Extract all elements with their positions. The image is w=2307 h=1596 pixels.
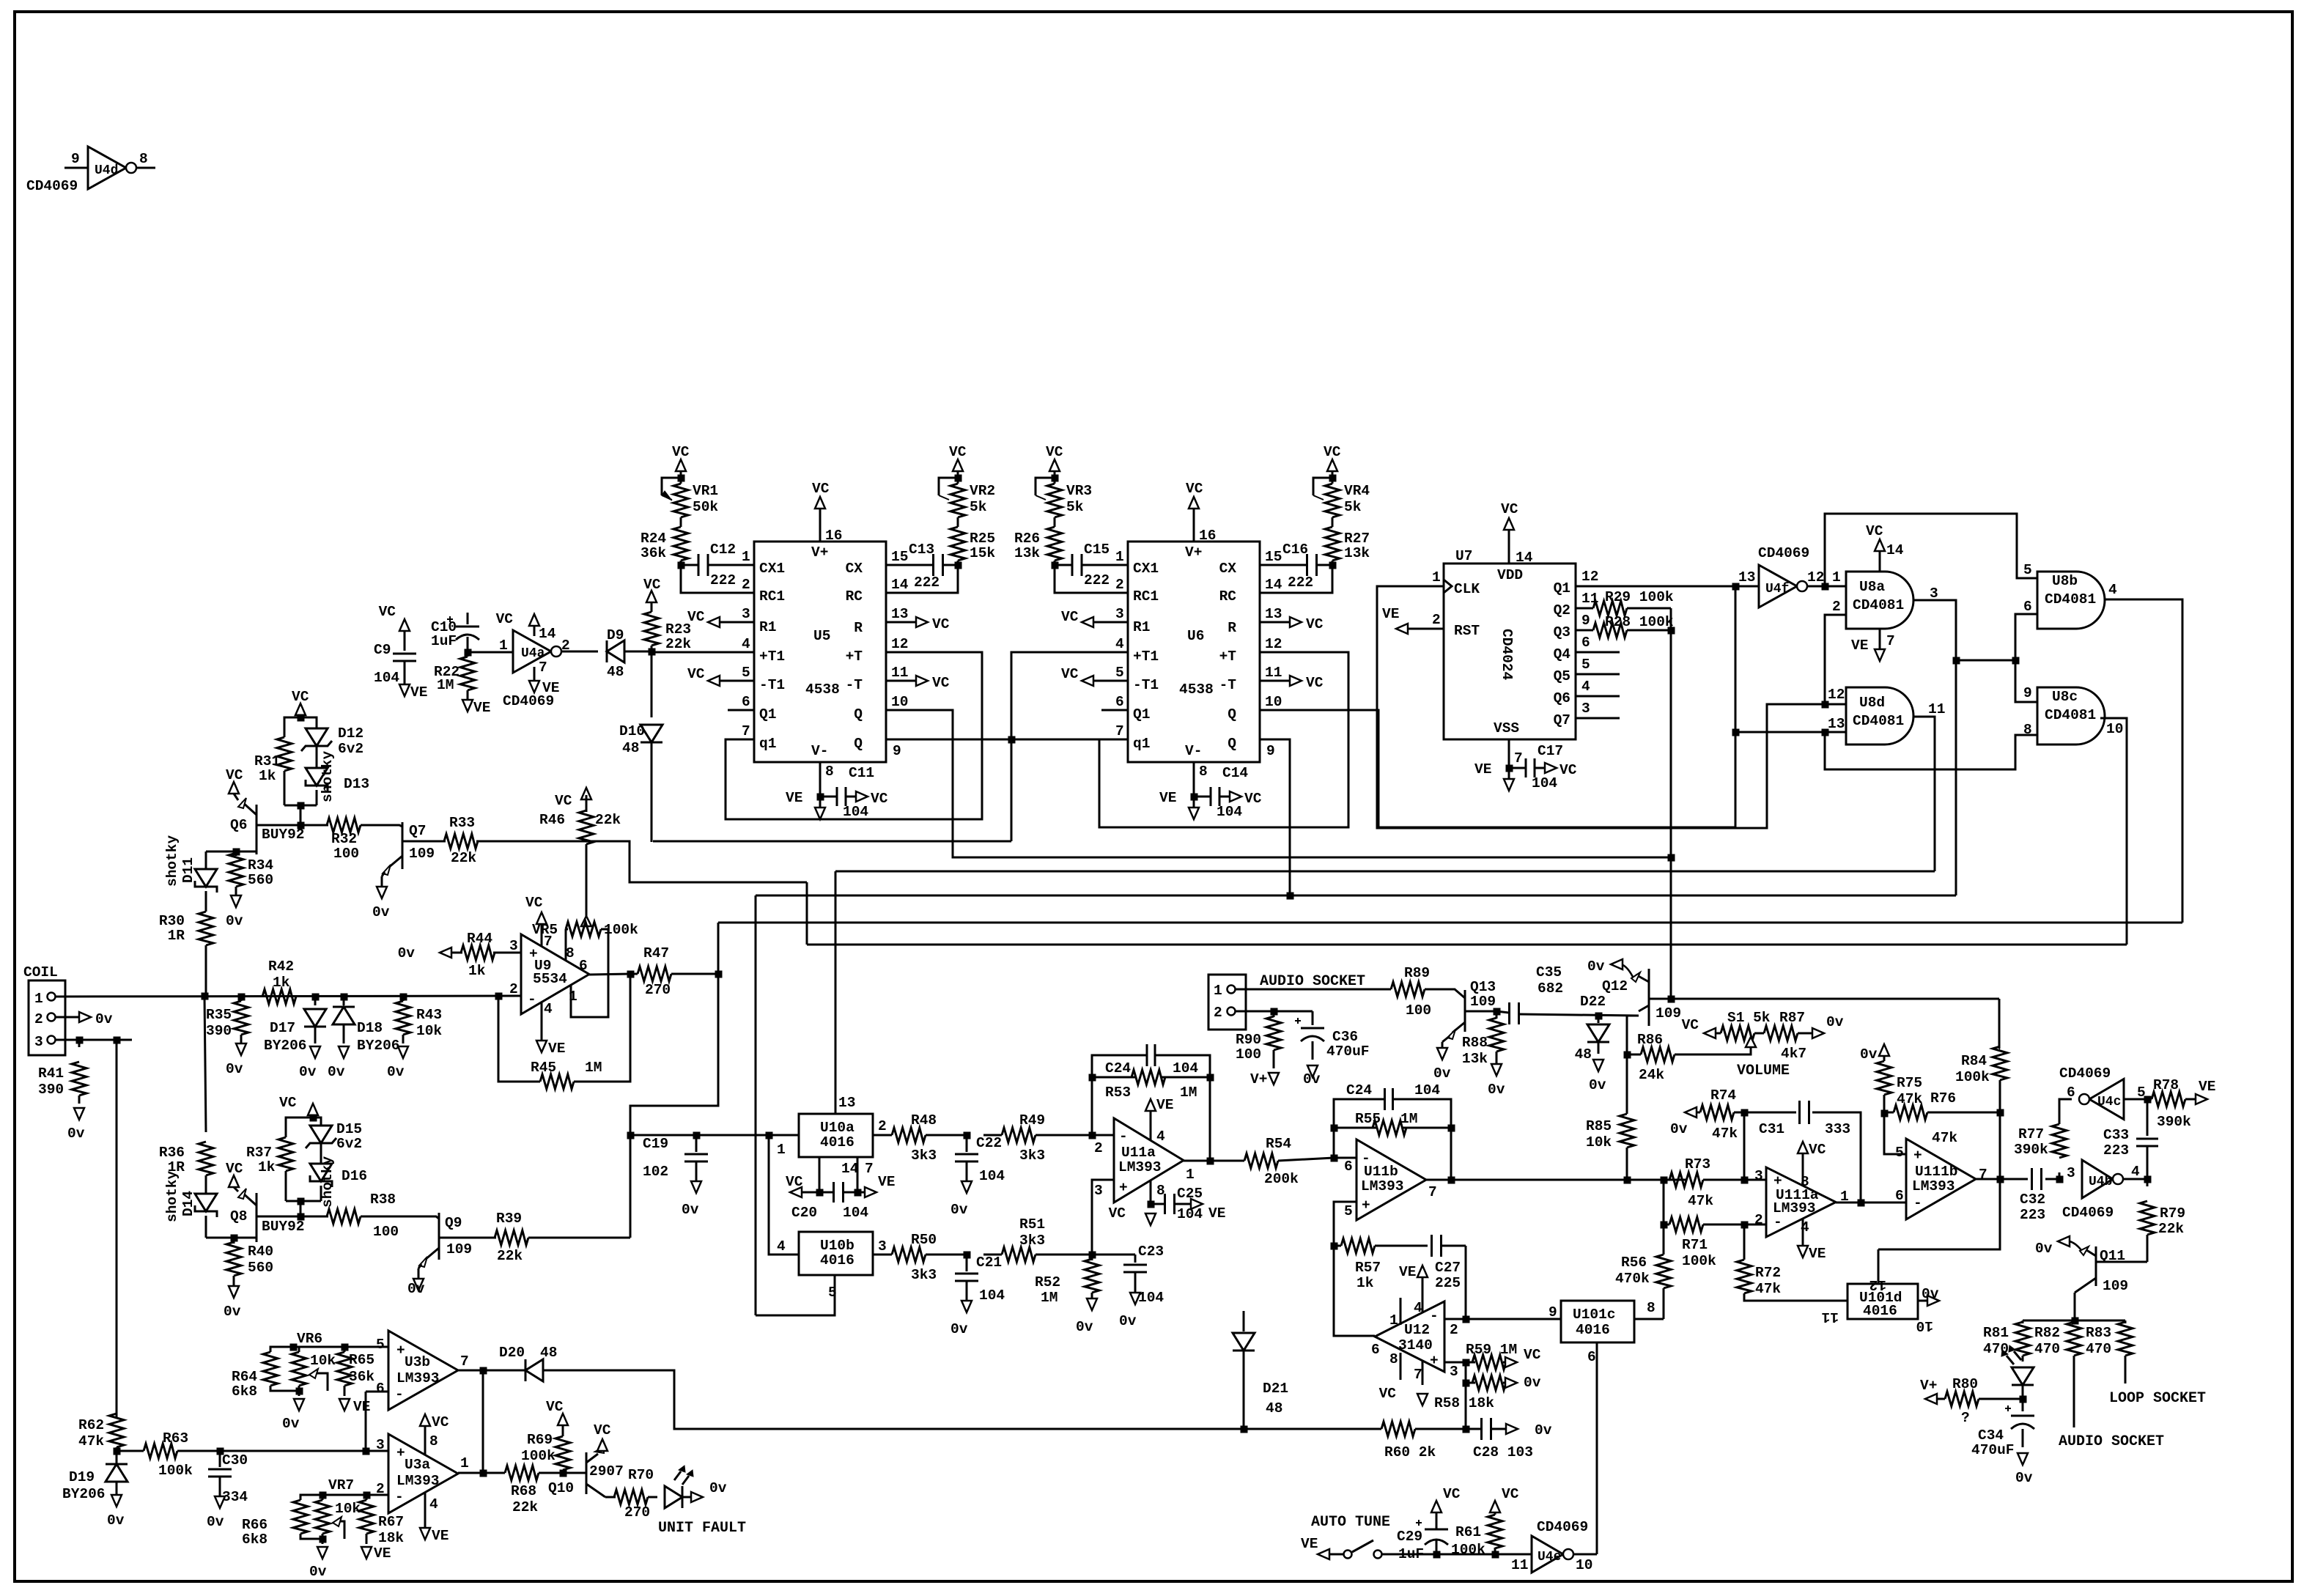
junction dots coil pin1 — [202, 993, 208, 1000]
wire base — [206, 851, 256, 853]
svg-text:100k: 100k — [1955, 1069, 1990, 1085]
junction — [76, 1037, 83, 1043]
svg-text:0v: 0v — [1433, 1065, 1451, 1082]
resistor R35 390 — [240, 997, 243, 1001]
svg-text:682: 682 — [1538, 980, 1563, 997]
svg-text:6k8: 6k8 — [232, 1383, 257, 1400]
svg-text:U4b: U4b — [2089, 1175, 2112, 1189]
svg-text:VC: VC — [1524, 1347, 1541, 1363]
svg-text:U4e: U4e — [1538, 1550, 1561, 1564]
wire — [680, 517, 682, 527]
resistor R72 47k — [1743, 1224, 1746, 1260]
svg-text:R40: R40 — [248, 1244, 273, 1260]
svg-text:22k: 22k — [2158, 1221, 2184, 1237]
U12 pin stubs — [1400, 1298, 1402, 1325]
wire R84 down to U101d — [1878, 1179, 2000, 1249]
svg-text:5: 5 — [1581, 657, 1590, 673]
junction — [298, 822, 304, 829]
junction — [1668, 627, 1675, 634]
wire — [300, 805, 302, 825]
resistor R83 470 — [2125, 1320, 2127, 1323]
junction — [1241, 1426, 1247, 1433]
svg-text:+: + — [396, 1445, 405, 1461]
svg-text:1k: 1k — [258, 1159, 276, 1175]
junction — [1624, 1052, 1631, 1058]
resistor R61 100k — [1494, 1548, 1496, 1554]
svg-text:VC: VC — [1559, 762, 1577, 778]
wire — [755, 895, 757, 1315]
wire — [1193, 762, 1195, 797]
svg-text:CD4069: CD4069 — [1758, 545, 1809, 561]
svg-text:C12: C12 — [710, 542, 736, 558]
svg-text:47k: 47k — [1688, 1193, 1713, 1209]
op-amp U111a LM393 — [1766, 1167, 1836, 1237]
resistor R28 100k — [1576, 629, 1593, 632]
wire — [728, 709, 754, 712]
svg-text:Q11: Q11 — [2100, 1248, 2125, 1264]
svg-text:C16: C16 — [1282, 542, 1308, 558]
svg-text:AUDIO SOCKET: AUDIO SOCKET — [1260, 973, 1365, 990]
wire Q1 — [1576, 585, 1759, 588]
inverter U4e CD4069 — [1532, 1536, 1563, 1573]
wire — [1332, 561, 1334, 565]
wire coil3 down — [116, 1040, 118, 1417]
svg-text:104: 104 — [979, 1168, 1005, 1184]
svg-text:R35: R35 — [206, 1007, 232, 1023]
svg-text:100k: 100k — [1682, 1253, 1716, 1269]
svg-text:R43: R43 — [416, 1007, 442, 1023]
junction — [1329, 562, 1336, 569]
power 0v R35 — [236, 1043, 246, 1055]
svg-text:LM393: LM393 — [1361, 1178, 1404, 1194]
svg-text:D14: D14 — [180, 1191, 196, 1216]
wire U10b pin5 — [756, 1275, 835, 1315]
svg-text:14: 14 — [539, 626, 556, 642]
power 0v Q7 — [382, 872, 385, 876]
svg-text:R65: R65 — [349, 1352, 374, 1368]
svg-text:4: 4 — [544, 1001, 553, 1017]
resistor R50 3k3 — [892, 1247, 926, 1262]
svg-text:U8c: U8c — [2052, 689, 2078, 705]
svg-text:R51: R51 — [1019, 1216, 1045, 1233]
svg-text:C33: C33 — [2103, 1127, 2129, 1143]
svg-text:0v: 0v — [1488, 1082, 1505, 1098]
svg-text:10k: 10k — [416, 1023, 442, 1039]
svg-text:4: 4 — [2108, 582, 2117, 598]
svg-text:VR6: VR6 — [297, 1331, 322, 1347]
resistor R69 100k — [562, 1470, 564, 1473]
wire — [361, 1216, 439, 1219]
svg-text:R74: R74 — [1710, 1087, 1736, 1104]
wire R47 to U10a — [630, 974, 718, 1238]
svg-text:RST: RST — [1454, 623, 1480, 639]
power 0v R52 — [1087, 1298, 1097, 1310]
wire U111b pin5 — [1884, 1113, 1906, 1154]
resistor R68 22k — [505, 1466, 539, 1480]
svg-text:3140: 3140 — [1398, 1337, 1433, 1353]
svg-text:C22: C22 — [976, 1135, 1002, 1151]
svg-text:R: R — [1228, 620, 1236, 636]
junction — [1661, 1222, 1667, 1228]
wire — [1260, 739, 1290, 895]
svg-text:C17: C17 — [1538, 743, 1563, 759]
svg-text:Q5: Q5 — [1554, 668, 1570, 684]
svg-text:U11b: U11b — [1364, 1164, 1398, 1180]
svg-text:R79: R79 — [2160, 1205, 2185, 1222]
svg-text:VR3: VR3 — [1066, 483, 1092, 499]
svg-text:VC: VC — [1186, 481, 1203, 497]
svg-text:R50: R50 — [911, 1232, 937, 1248]
svg-text:10: 10 — [891, 694, 908, 710]
svg-text:13k: 13k — [1462, 1051, 1488, 1067]
wire U8d out bus — [835, 871, 1935, 873]
svg-text:12: 12 — [891, 636, 908, 652]
svg-text:0v: 0v — [1119, 1313, 1137, 1329]
wire pin8 — [1634, 1318, 1664, 1320]
svg-text:-: - — [395, 1489, 404, 1505]
svg-text:-: - — [1430, 1308, 1439, 1324]
svg-text:R81: R81 — [1983, 1325, 2009, 1341]
resistor R41 390 — [78, 1040, 81, 1047]
svg-text:1R: 1R — [168, 928, 185, 944]
svg-text:1uF: 1uF — [1398, 1546, 1424, 1562]
resistor R40 560 — [233, 1238, 235, 1244]
svg-text:VC: VC — [1109, 1205, 1126, 1222]
svg-text:R87: R87 — [1779, 1010, 1805, 1026]
svg-text:R27: R27 — [1344, 531, 1370, 547]
svg-text:48: 48 — [1266, 1400, 1282, 1416]
power 0v D18 — [339, 1046, 349, 1058]
svg-text:R26: R26 — [1014, 531, 1040, 547]
pot VR2 5k — [951, 484, 965, 517]
wire RC pin14 — [886, 565, 958, 593]
svg-text:14: 14 — [1265, 577, 1282, 593]
svg-text:1: 1 — [1432, 569, 1441, 585]
svg-text:8: 8 — [1156, 1183, 1165, 1199]
svg-text:R80: R80 — [1952, 1376, 1978, 1392]
svg-text:100: 100 — [1406, 1002, 1431, 1019]
wire — [1670, 630, 1672, 999]
svg-text:C13: C13 — [909, 542, 934, 558]
svg-text:18k: 18k — [378, 1530, 404, 1546]
wire — [313, 1117, 321, 1126]
junction — [1732, 583, 1739, 590]
svg-text:R23: R23 — [665, 621, 691, 638]
svg-text:shotky: shotky — [164, 1170, 180, 1222]
junction — [1953, 657, 1960, 664]
inverter U4f — [1759, 565, 1797, 607]
wire U11a out — [1184, 1160, 1210, 1162]
pot VR4 5k — [1325, 484, 1340, 517]
resistor R59 1M — [1466, 1362, 1475, 1364]
svg-text:R88: R88 — [1462, 1035, 1488, 1051]
wire — [482, 1370, 484, 1473]
svg-text:333: 333 — [1825, 1121, 1850, 1137]
resistor R56 470k — [1663, 1224, 1665, 1255]
svg-text:C30: C30 — [222, 1452, 248, 1468]
switch U101c 4016 — [1561, 1301, 1634, 1342]
svg-text:VC: VC — [932, 616, 950, 632]
wire Q12 collector — [1649, 998, 1999, 1000]
svg-text:R58 18k: R58 18k — [1434, 1395, 1494, 1411]
junction — [817, 794, 824, 800]
svg-text:1: 1 — [1832, 569, 1841, 585]
svg-text:RC: RC — [1219, 588, 1237, 605]
resistor R23 22k — [651, 646, 653, 651]
pot VR1 50k — [673, 484, 688, 517]
svg-text:24k: 24k — [1639, 1067, 1664, 1083]
svg-text:V+: V+ — [811, 544, 828, 561]
wire U10a pin14 C20 pin7 — [819, 1157, 821, 1192]
capacitor C19 102 — [695, 1135, 698, 1152]
svg-text:D15: D15 — [336, 1121, 362, 1137]
svg-text:R63: R63 — [163, 1430, 188, 1447]
svg-text:560: 560 — [248, 872, 273, 888]
svg-text:R41: R41 — [38, 1065, 64, 1082]
svg-text:560: 560 — [248, 1260, 273, 1276]
svg-text:22k: 22k — [512, 1499, 538, 1515]
junction — [290, 1344, 297, 1351]
power VE U6 pin8 — [1189, 808, 1199, 819]
wire — [652, 651, 754, 654]
svg-text:VE: VE — [473, 700, 490, 716]
svg-text:VE: VE — [1159, 790, 1176, 806]
capacitor C17 104 — [1509, 767, 1526, 769]
IC U5 4538 — [754, 542, 886, 762]
svg-text:0v: 0v — [372, 904, 390, 920]
power 0v Q12 — [1621, 964, 1633, 977]
svg-text:8: 8 — [429, 1433, 438, 1449]
svg-text:7: 7 — [1886, 633, 1895, 649]
resistor R33 22k — [444, 834, 478, 849]
wire U10a pin2 — [873, 1134, 892, 1137]
svg-text:R68: R68 — [511, 1483, 536, 1499]
power VE U7 pin7 — [1504, 779, 1514, 791]
svg-text:U8a: U8a — [1859, 579, 1885, 595]
svg-text:270: 270 — [624, 1504, 650, 1521]
wire U8b out — [2105, 599, 2182, 923]
wire — [284, 786, 286, 805]
wire — [1054, 561, 1056, 565]
svg-text:C15: C15 — [1084, 542, 1110, 558]
junction — [320, 1492, 326, 1499]
svg-text:4: 4 — [742, 636, 750, 652]
wire U6 pin4 — [1011, 652, 1128, 841]
wire — [1450, 1128, 1453, 1180]
junction — [363, 1448, 369, 1455]
inverter U4d — [88, 147, 126, 189]
svg-text:3k3: 3k3 — [1019, 1148, 1045, 1164]
svg-text:+T1: +T1 — [759, 649, 785, 665]
capacitor C10 1uF — [467, 613, 469, 624]
svg-text:4016: 4016 — [820, 1134, 854, 1150]
svg-text:0v: 0v — [682, 1202, 699, 1218]
wire — [284, 717, 300, 737]
svg-text:104: 104 — [1217, 804, 1242, 820]
svg-text:13: 13 — [891, 606, 908, 622]
svg-text:109: 109 — [446, 1241, 472, 1257]
svg-text:1: 1 — [1214, 983, 1222, 999]
LED unit fault — [665, 1486, 682, 1508]
diode D10 48 — [651, 651, 653, 717]
svg-text:+: + — [1913, 1148, 1922, 1164]
resistor R79 22k — [2147, 1179, 2149, 1186]
resistor R74 47k — [1685, 1107, 1697, 1117]
svg-text:R57: R57 — [1355, 1260, 1381, 1276]
wire — [682, 1496, 691, 1499]
svg-text:0v: 0v — [1524, 1375, 1541, 1391]
svg-text:R64: R64 — [232, 1369, 257, 1385]
svg-text:R32: R32 — [331, 831, 357, 847]
svg-text:U12: U12 — [1404, 1322, 1430, 1338]
power VC U5 pin13 — [886, 621, 916, 624]
svg-text:S1 5k: S1 5k — [1727, 1010, 1771, 1026]
svg-text:3: 3 — [742, 606, 750, 622]
svg-text:VE: VE — [432, 1528, 449, 1544]
svg-text:2: 2 — [742, 577, 750, 593]
wire pin6 — [366, 1391, 388, 1393]
junction — [1463, 1380, 1469, 1386]
svg-text:+: + — [1362, 1197, 1370, 1213]
svg-text:V-: V- — [1185, 743, 1202, 759]
svg-text:3: 3 — [34, 1034, 43, 1050]
power VE R67 — [361, 1547, 372, 1559]
svg-text:104: 104 — [979, 1287, 1005, 1304]
svg-text:4538: 4538 — [805, 681, 840, 698]
svg-text:Q7: Q7 — [1554, 712, 1570, 728]
svg-text:C24: C24 — [1105, 1060, 1131, 1076]
svg-text:Q: Q — [854, 706, 863, 723]
power 0v C22 — [961, 1181, 972, 1193]
svg-text:R49: R49 — [1019, 1112, 1045, 1128]
svg-text:R66: R66 — [242, 1517, 267, 1533]
power 0v Q11 — [2070, 1241, 2081, 1250]
svg-text:0v: 0v — [2015, 1470, 2033, 1486]
svg-text:0v: 0v — [951, 1202, 968, 1218]
svg-text:225: 225 — [1435, 1275, 1461, 1291]
power VC U6 pin11 — [1260, 680, 1290, 682]
svg-text:12: 12 — [1828, 687, 1845, 703]
svg-text:BY206: BY206 — [62, 1486, 106, 1502]
wire — [1465, 1383, 1467, 1429]
svg-text:11: 11 — [1928, 701, 1945, 717]
wire — [1101, 709, 1128, 712]
svg-text:R28 100k: R28 100k — [1605, 614, 1674, 630]
junction — [1287, 893, 1293, 899]
resistor R34 560 — [235, 851, 237, 856]
svg-text:6: 6 — [1344, 1159, 1353, 1175]
svg-text:104: 104 — [843, 804, 868, 820]
svg-text:4: 4 — [1581, 679, 1590, 695]
wire U8d13 to U8c pin8 — [1825, 732, 2037, 769]
wire U3b out — [458, 1370, 527, 1372]
svg-text:100: 100 — [333, 846, 359, 862]
diode D22 48 — [1598, 1016, 1600, 1023]
svg-text:7: 7 — [1514, 750, 1523, 766]
pot VR3 5k — [1047, 484, 1062, 517]
wire — [284, 805, 317, 807]
svg-text:2907: 2907 — [589, 1463, 624, 1479]
svg-text:270: 270 — [645, 982, 671, 998]
transistor Q6 BUY92 — [256, 805, 258, 854]
wire Q12 emitter net — [1648, 1015, 1650, 1026]
svg-text:200k: 200k — [1264, 1171, 1299, 1187]
wire — [806, 882, 808, 945]
svg-text:2: 2 — [34, 1011, 43, 1027]
svg-text:5: 5 — [1115, 665, 1124, 681]
svg-text:13k: 13k — [1344, 545, 1370, 561]
svg-text:Q: Q — [1228, 736, 1236, 752]
svg-text:VE: VE — [1809, 1246, 1826, 1262]
svg-text:R61: R61 — [1455, 1524, 1481, 1540]
junction — [1148, 1201, 1154, 1208]
svg-text:3: 3 — [1754, 1168, 1763, 1184]
capacitor C25 104 — [1151, 1203, 1164, 1205]
connector AUDIO SOCKET — [1208, 975, 1246, 1030]
svg-text:VE: VE — [1382, 606, 1399, 622]
svg-text:VC: VC — [1682, 1017, 1699, 1033]
wire U11b out — [1426, 1179, 1627, 1181]
diode D9 48 — [607, 640, 624, 662]
power VC U5 pin16 — [819, 509, 822, 542]
wire pin2 — [1236, 1011, 1274, 1013]
svg-text:5k: 5k — [970, 499, 987, 515]
junction — [217, 1448, 224, 1455]
svg-text:C11: C11 — [849, 765, 874, 781]
svg-text:470uF: 470uF — [1971, 1442, 2015, 1458]
resistor R57 1k — [1334, 1245, 1341, 1247]
power VC R23 — [646, 591, 657, 602]
svg-text:R53: R53 — [1105, 1085, 1131, 1101]
wire Q6 — [1576, 695, 1620, 698]
svg-text:q1: q1 — [759, 736, 776, 752]
svg-text:+: + — [1119, 1180, 1128, 1196]
svg-text:AUTO TUNE: AUTO TUNE — [1311, 1514, 1390, 1531]
svg-text:VC: VC — [594, 1422, 611, 1438]
junction — [766, 1132, 772, 1139]
svg-text:CD4069: CD4069 — [1537, 1519, 1588, 1535]
svg-text:V+: V+ — [1250, 1071, 1267, 1087]
svg-text:47k: 47k — [1932, 1130, 1957, 1146]
svg-text:13: 13 — [1828, 716, 1845, 732]
power VC U9 pin7 — [541, 924, 543, 947]
resistor R31 1k — [277, 737, 292, 771]
wire — [300, 717, 317, 728]
svg-text:CX: CX — [1219, 561, 1237, 577]
svg-text:UNIT FAULT: UNIT FAULT — [658, 1520, 746, 1537]
svg-text:D10: D10 — [619, 723, 645, 739]
junction — [465, 649, 471, 656]
svg-text:6: 6 — [376, 1381, 385, 1397]
wire — [2015, 614, 2037, 660]
svg-text:U4d: U4d — [95, 163, 118, 178]
svg-text:4: 4 — [429, 1496, 438, 1512]
svg-text:R75: R75 — [1897, 1075, 1922, 1091]
svg-text:47k: 47k — [78, 1433, 104, 1449]
power 0v VR6 — [298, 1391, 300, 1396]
svg-text:16: 16 — [825, 528, 842, 544]
power 0v C34 — [2018, 1453, 2028, 1465]
op-amp U3a LM393 — [388, 1434, 458, 1513]
svg-text:R48: R48 — [911, 1112, 937, 1128]
svg-text:Q8: Q8 — [230, 1208, 247, 1224]
junction — [2144, 1176, 2151, 1183]
svg-text:Q1: Q1 — [1133, 706, 1150, 723]
diode D19 BY206 — [116, 1451, 118, 1464]
schottky D13 — [306, 768, 328, 786]
resistor R24 36k — [673, 527, 688, 561]
wire out to right — [1627, 1179, 1686, 1181]
